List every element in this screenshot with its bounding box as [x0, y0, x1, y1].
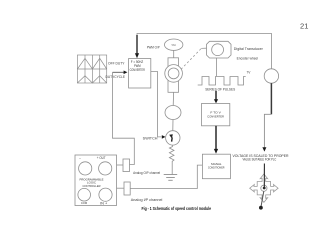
- svg-text:CONDITIONER: CONDITIONER: [208, 165, 225, 169]
- svg-text:DUTYCYCLE: DUTYCYCLE: [106, 75, 126, 79]
- svg-text:Analog I/P channel: Analog I/P channel: [131, 198, 163, 202]
- label VOLTAGE IS SCALED TO PROPER: [233, 154, 290, 158]
- wire TAC to motor: [173, 50, 175, 57]
- label SWITCH: [143, 136, 158, 140]
- ground: [164, 175, 178, 181]
- wire PLC to analog input connector: [117, 187, 124, 189]
- wire coupler to switch: [172, 120, 174, 131]
- svg-text:+ OUT: + OUT: [97, 156, 106, 160]
- svg-text:--: --: [79, 156, 81, 160]
- wire arrow pulses to F-to-V converter: [214, 91, 218, 104]
- F to V converter U2: [202, 104, 230, 126]
- svg-text:COM: COM: [81, 201, 88, 205]
- PLC terminal bottom-left (COM): [78, 188, 91, 205]
- svg-text:Encoder wheel: Encoder wheel: [237, 57, 259, 61]
- node junction circle on scaled-voltage line: [264, 69, 278, 83]
- svg-text:CONVERTER: CONVERTER: [130, 68, 146, 72]
- svg-text:SWITCH: SWITCH: [143, 136, 158, 140]
- label Encoder wheel: [237, 57, 259, 61]
- label 7V: [247, 71, 252, 75]
- wire pointer line through symbol: [259, 164, 266, 210]
- coupler ellipse: [165, 106, 181, 120]
- connector analog output channel: [123, 159, 130, 172]
- PLC box: [75, 155, 117, 206]
- PLC terminal bottom-right (IN+): [99, 188, 112, 206]
- label + OUT: [97, 156, 106, 160]
- wire PLC to analog output connector: [117, 164, 123, 166]
- svg-text:Digital Transducer: Digital Transducer: [234, 47, 264, 51]
- PWM converter U1: [129, 59, 151, 89]
- label Digital Transducer: [234, 47, 264, 51]
- wire transducer to pulse train: [216, 58, 218, 76]
- connector analog input channel: [124, 182, 130, 195]
- wire arrow F-to-V to signal conditioner: [214, 126, 218, 154]
- tachometer TAC: [165, 39, 183, 50]
- caption: [142, 206, 212, 211]
- svg-text:CONTROLLER: CONTROLLER: [83, 184, 102, 188]
- resistor R1: [169, 145, 174, 174]
- svg-text:PWM O/P: PWM O/P: [147, 45, 161, 49]
- label DUTYCYCLE: [106, 75, 126, 79]
- wire motor to coupler: [172, 92, 174, 105]
- label PWM O/P: [147, 45, 161, 49]
- label Analog O/P channel: [133, 171, 160, 175]
- PLC terminal top-left: [79, 156, 92, 175]
- mechanical coupling (dashed): [181, 48, 207, 69]
- svg-text:21: 21: [300, 23, 309, 30]
- svg-text:TAC: TAC: [171, 43, 176, 47]
- label SERIES OF PULSES: [205, 87, 235, 91]
- page number 21: [300, 23, 309, 30]
- svg-text:Analog O/P channel: Analog O/P channel: [133, 171, 160, 175]
- signal conditioner U3: [202, 154, 230, 179]
- svg-text:CONVERTER: CONVERTER: [207, 114, 224, 118]
- motor M1: [165, 58, 183, 92]
- svg-text:Fig - 1 Schematic of speed con: Fig - 1 Schematic of speed control modul…: [142, 206, 212, 211]
- wire scaled voltage line: [262, 83, 271, 151]
- svg-text:SERIES OF PULSES: SERIES OF PULSES: [205, 87, 235, 91]
- wire duty-cycle arrow into PWM converter: [113, 71, 128, 75]
- svg-text:VALUE SUITABLE FOR PLC: VALUE SUITABLE FOR PLC: [243, 158, 277, 162]
- PLC text: [80, 177, 104, 188]
- wire arrow into PWM converter top: [135, 35, 139, 58]
- svg-text:OFF DUTY: OFF DUTY: [108, 62, 125, 66]
- label Analog I/P channel: [131, 198, 163, 202]
- svg-text:IN +: IN +: [100, 202, 107, 206]
- four-way arrow symbol (PLC input marker): [250, 174, 278, 202]
- PLC terminal top-right (+OUT): [99, 162, 112, 175]
- wire top rail: [137, 34, 272, 70]
- waveform box (duty-cycle illustration): [77, 55, 106, 83]
- svg-text:7V: 7V: [247, 71, 252, 75]
- digital transducer (encoder): [207, 41, 232, 58]
- wire feedback analog output to duty cycle input: [113, 72, 135, 164]
- switch Q1: [166, 131, 180, 145]
- label OFF DUTY: [108, 62, 125, 66]
- label VALUE SUITABLE FOR PLC: [243, 158, 277, 162]
- pulse train (series of pulses): [198, 77, 246, 86]
- wire PWM output to switch: [151, 72, 166, 139]
- wire signal conditioner to PLC analog input: [130, 165, 202, 188]
